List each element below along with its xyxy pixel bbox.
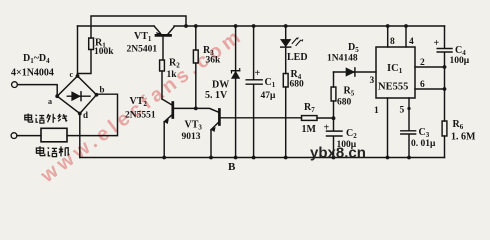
svg-text:+: + bbox=[255, 68, 261, 79]
bridge rectifier D1-D4 diamond bbox=[57, 76, 96, 114]
svg-text:100k: 100k bbox=[94, 47, 114, 57]
junction DW top rail bbox=[234, 24, 238, 28]
svg-text:1N4148: 1N4148 bbox=[327, 54, 358, 64]
svg-text:47μ: 47μ bbox=[261, 91, 277, 101]
label dianhuaji (Chinese: telephone set) bbox=[36, 146, 69, 156]
transistor Q VT1 pnp bbox=[154, 26, 161, 33]
bridge internal diode bbox=[67, 95, 90, 97]
svg-text:1. 6M: 1. 6M bbox=[451, 132, 476, 143]
svg-text:1k: 1k bbox=[167, 70, 178, 80]
svg-text:2: 2 bbox=[420, 58, 425, 68]
resistor R1 bbox=[89, 38, 94, 50]
svg-text:9013: 9013 bbox=[182, 132, 201, 142]
svg-text:4: 4 bbox=[409, 37, 414, 47]
wire terminal2 to box bbox=[17, 135, 41, 137]
svg-text:2N5551: 2N5551 bbox=[125, 111, 156, 121]
junction pin2 C4 bbox=[443, 65, 447, 69]
pin 1 lead bbox=[387, 98, 389, 158]
junction pin5 lead bbox=[407, 107, 410, 110]
resistor R4 bbox=[283, 74, 288, 88]
svg-text:5. 1V: 5. 1V bbox=[205, 90, 228, 101]
pin 8 lead bbox=[387, 26, 389, 47]
transistor Q VT2 npn bbox=[162, 99, 172, 105]
node R7/R5/C2 bbox=[332, 116, 336, 120]
svg-text:a: a bbox=[48, 97, 52, 106]
junction pin6 R6 bbox=[443, 87, 447, 91]
wire box to bridge b bbox=[67, 94, 118, 135]
phone box bbox=[41, 128, 67, 142]
pin 4 lead bbox=[405, 26, 407, 47]
resistor R6 bbox=[442, 121, 447, 136]
svg-text:B: B bbox=[228, 161, 236, 173]
wire bottom rail bbox=[80, 157, 445, 159]
LED bbox=[285, 26, 287, 39]
svg-text:3: 3 bbox=[370, 76, 375, 86]
junction C1 top rail bbox=[252, 24, 256, 28]
node a bbox=[55, 94, 59, 98]
wire C4 to pin2/pin6/R6 bbox=[444, 67, 446, 121]
resistor R7 bbox=[302, 116, 318, 121]
resistor R5 bbox=[333, 72, 335, 87]
svg-text:+: + bbox=[324, 123, 330, 134]
svg-text:c: c bbox=[70, 70, 74, 79]
svg-text:+: + bbox=[434, 38, 440, 49]
svg-text:ybx8.cn: ybx8.cn bbox=[310, 145, 366, 162]
wire top rail right (VT1 collector) bbox=[174, 25, 445, 27]
junction loop/collector rail bbox=[184, 24, 188, 28]
capacitor C1 bbox=[246, 26, 262, 158]
junction LED top rail bbox=[284, 24, 288, 28]
node c bbox=[76, 74, 80, 78]
pin 2 lead bbox=[415, 66, 445, 68]
svg-text:100μ: 100μ bbox=[450, 56, 470, 66]
label dianhua waixian (Chinese: telephone outer line) bbox=[25, 114, 67, 124]
junction pin4 top rail bbox=[404, 24, 408, 28]
junction VT3 emitter bottom rail bbox=[209, 156, 213, 160]
junction C1 bottom rail bbox=[252, 156, 256, 160]
diode D5 bbox=[334, 71, 377, 73]
junction R3 top rail bbox=[194, 24, 198, 28]
transistor Q VT3 npn bbox=[196, 108, 218, 112]
wire VT2 base to R3 node bbox=[174, 107, 196, 109]
svg-text:680: 680 bbox=[290, 80, 305, 90]
wire left vertical to bridge c bbox=[77, 26, 79, 75]
svg-text:DW: DW bbox=[212, 80, 229, 91]
node R3/VT2b/VT3c bbox=[194, 107, 198, 111]
svg-text:0. 01μ: 0. 01μ bbox=[411, 139, 436, 149]
svg-text:1M: 1M bbox=[302, 124, 317, 135]
junction DW bottom rail bbox=[234, 156, 238, 160]
svg-text:680: 680 bbox=[337, 98, 352, 108]
resistor R3 bbox=[195, 26, 197, 50]
svg-text:4×1N4004: 4×1N4004 bbox=[11, 68, 54, 79]
svg-text:D1~D4: D1~D4 bbox=[23, 53, 50, 65]
node d bbox=[78, 112, 82, 116]
pin 5 lead bbox=[408, 98, 410, 131]
junction VT2 emitter bottom rail bbox=[162, 156, 166, 160]
node b bbox=[95, 93, 99, 97]
wire top rail left (+V) bbox=[78, 25, 155, 27]
op-amp U IC1 NE555 box bbox=[376, 47, 415, 98]
pin 6 lead bbox=[415, 88, 445, 90]
wire terminal1 to bridge a bbox=[17, 85, 57, 97]
junction pin1 bottom rail bbox=[386, 156, 390, 160]
svg-text:36k: 36k bbox=[206, 56, 222, 66]
svg-text:8: 8 bbox=[390, 37, 395, 47]
capacitor C2 bbox=[327, 118, 343, 157]
svg-text:6: 6 bbox=[420, 80, 425, 90]
zener DW bbox=[235, 26, 237, 158]
junction C3 bottom rail bbox=[407, 156, 411, 160]
svg-text:2N5401: 2N5401 bbox=[127, 45, 158, 55]
terminal phone set bbox=[11, 133, 17, 139]
capacitor C4 bbox=[437, 26, 452, 67]
svg-text:5: 5 bbox=[400, 106, 405, 116]
junction C2 bottom rail bbox=[332, 156, 336, 160]
junction R4 bottom rail bbox=[284, 156, 288, 160]
watermark www.elecfans.com bbox=[36, 24, 248, 188]
svg-text:d: d bbox=[83, 110, 88, 120]
resistor R2 bbox=[160, 60, 165, 71]
terminal phone line bbox=[12, 82, 18, 88]
wire bridge d to bottom rail bbox=[79, 114, 81, 158]
svg-text:NE555: NE555 bbox=[378, 82, 408, 93]
wire VT3 base to R7 line bbox=[221, 117, 302, 119]
wire upper loop R1 to VT1 collector bbox=[91, 16, 186, 38]
junction pin8 top rail bbox=[386, 24, 390, 28]
svg-text:1: 1 bbox=[374, 106, 379, 116]
capacitor C3 bbox=[401, 131, 416, 158]
svg-text:LED: LED bbox=[287, 52, 308, 63]
svg-text:b: b bbox=[100, 85, 105, 95]
